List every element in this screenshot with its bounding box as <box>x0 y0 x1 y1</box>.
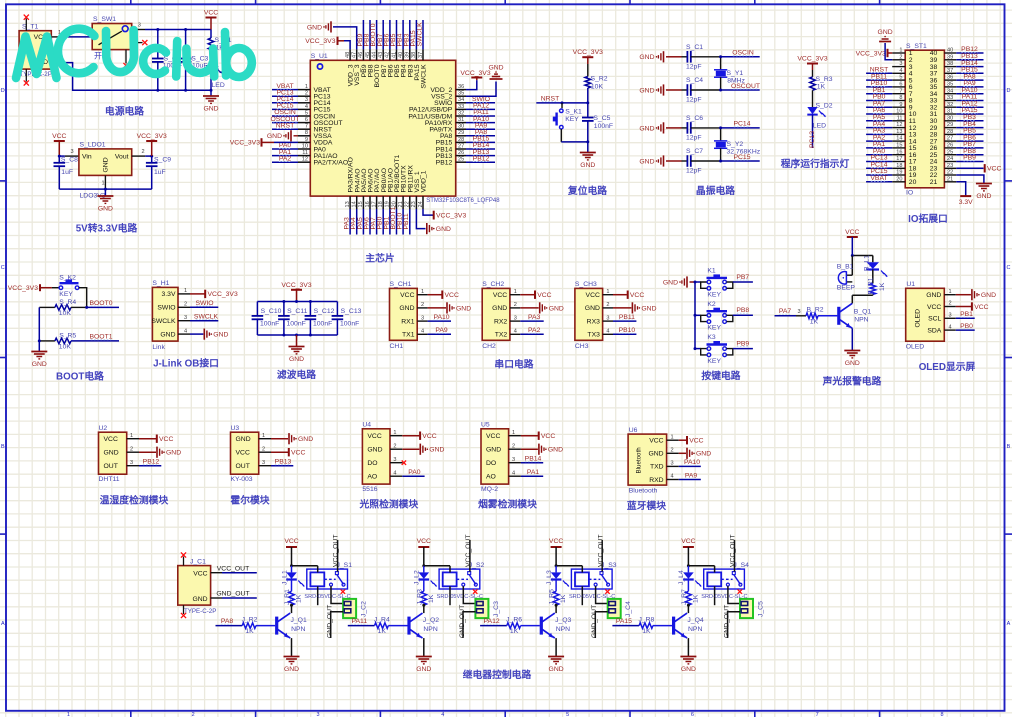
header S_H1 body <box>152 287 178 341</box>
header pin 14 <box>892 140 905 142</box>
svg-text:TXD: TXD <box>650 464 664 471</box>
module U3 body <box>231 432 259 474</box>
header S_CH2 body <box>482 288 510 340</box>
header pin 34 <box>944 93 956 95</box>
S_CH1 pin4 wire PA9 <box>428 333 451 335</box>
connector J_C1 (TYPE-C-2P) body <box>178 566 211 606</box>
svg-text:3: 3 <box>512 457 515 463</box>
svg-text:S_C1: S_C1 <box>686 44 703 51</box>
wire PB9 <box>733 348 753 350</box>
svg-text:VCC: VCC <box>586 292 600 299</box>
svg-text:27: 27 <box>458 143 464 149</box>
svg-text:1: 1 <box>514 289 517 295</box>
svg-text:2: 2 <box>393 443 396 449</box>
svg-text:J_R8: J_R8 <box>638 617 654 624</box>
mcu pin 13 PA3/RX/AO <box>349 196 351 209</box>
svg-text:48: 48 <box>345 52 351 58</box>
resistor S_R3 <box>810 77 816 90</box>
svg-text:J_R3: J_R3 <box>416 589 423 605</box>
U2 pin2 to GND <box>139 451 156 453</box>
svg-text:S_C10: S_C10 <box>261 308 282 315</box>
header pin 28 <box>944 133 956 135</box>
svg-text:电源电路: 电源电路 <box>105 105 144 118</box>
svg-text:温湿度检测模块: 温湿度检测模块 <box>100 494 169 507</box>
svg-text:GND: GND <box>641 305 656 312</box>
svg-text:3: 3 <box>393 457 396 463</box>
svg-text:29: 29 <box>947 122 953 128</box>
header pin 15 <box>892 147 905 149</box>
emitter to GND (relay 2) <box>423 638 425 656</box>
svg-text:GND: GND <box>267 133 282 140</box>
svg-text:NPN: NPN <box>423 626 437 633</box>
svg-text:18: 18 <box>378 201 384 207</box>
svg-text:DHT11: DHT11 <box>99 476 120 483</box>
svg-text:7: 7 <box>816 712 819 717</box>
svg-text:声光报警电路: 声光报警电路 <box>822 375 882 388</box>
svg-text:GND: GND <box>639 87 654 94</box>
svg-text:26: 26 <box>458 150 464 156</box>
collector wire (relay 1) <box>291 605 293 613</box>
svg-text:1: 1 <box>262 433 265 439</box>
capacitor S_C11 <box>283 302 285 316</box>
wire relay1 top <box>292 565 318 567</box>
svg-text:S_C4: S_C4 <box>686 77 703 84</box>
svg-text:VCC_3V3: VCC_3V3 <box>208 291 238 298</box>
header pin 17 <box>892 161 905 163</box>
svg-text:VCC: VCC <box>927 304 941 311</box>
svg-text:14: 14 <box>352 201 358 207</box>
wire OSCIN <box>721 56 760 58</box>
U5 pin3 wire PB14 <box>521 462 543 464</box>
header pin23 VCC power <box>956 167 983 169</box>
svg-text:D: D <box>1 88 5 94</box>
svg-text:J_C4: J_C4 <box>625 601 632 617</box>
header pin 29 <box>944 127 956 129</box>
MCUclub watermark <box>16 29 252 78</box>
svg-text:PC13: PC13 <box>809 131 816 148</box>
collector wire (relay 4) <box>687 605 689 613</box>
svg-text:K3: K3 <box>707 334 716 341</box>
svg-text:1: 1 <box>102 181 105 187</box>
S_CH1 pin2 to GND <box>428 307 446 309</box>
svg-text:4: 4 <box>671 474 674 480</box>
svg-text:D: D <box>1007 88 1011 94</box>
svg-text:GND: GND <box>663 279 678 286</box>
svg-text:SWCLK: SWCLK <box>417 22 424 47</box>
svg-text:27: 27 <box>947 136 953 142</box>
svg-text:2: 2 <box>512 443 515 449</box>
U5 pin1 to VCC <box>521 435 538 437</box>
svg-text:SWCLK: SWCLK <box>151 318 176 325</box>
svg-text:C: C <box>1007 265 1011 271</box>
svg-text:GND: GND <box>166 450 181 457</box>
svg-text:GND: GND <box>981 292 996 299</box>
svg-text:S_C6: S_C6 <box>686 115 703 122</box>
svg-text:4: 4 <box>606 329 609 335</box>
resistor J_R5 <box>553 591 559 605</box>
svg-text:1K: 1K <box>560 594 567 603</box>
relay J_S1 outline <box>307 569 348 589</box>
svg-text:2: 2 <box>899 54 902 60</box>
svg-text:25: 25 <box>947 149 953 155</box>
svg-text:15: 15 <box>358 201 364 207</box>
header pin 2 <box>892 59 905 61</box>
mcu pin 23 VSS_1 <box>415 196 417 209</box>
svg-text:VCC_OUT: VCC_OUT <box>465 535 472 567</box>
jlink pin4 to GND <box>190 333 203 335</box>
relay J_S3 coil <box>575 572 589 586</box>
svg-text:VCC_3V3: VCC_3V3 <box>137 133 167 140</box>
svg-text:GND: GND <box>32 361 47 368</box>
capacitor S_C3 <box>185 30 187 59</box>
U2 pin1 to VCC <box>139 438 156 440</box>
svg-text:2: 2 <box>671 448 674 454</box>
relay J_S4 contacts <box>721 578 732 580</box>
mcu pin 16 PA6/AO <box>369 196 371 209</box>
wire R2 to NRST node <box>587 88 589 103</box>
LED S_D1 <box>206 66 216 73</box>
svg-text:29: 29 <box>458 130 464 136</box>
svg-text:GND: GND <box>486 447 501 454</box>
svg-text:2: 2 <box>130 446 133 452</box>
wire C8 to LDO pin3 <box>59 155 65 157</box>
U4 pin2 to GND <box>402 448 419 450</box>
svg-text:VCC: VCC <box>845 229 859 236</box>
svg-text:按键电路: 按键电路 <box>701 369 740 382</box>
collector wire (relay 3) <box>555 605 557 613</box>
svg-text:VCC: VCC <box>159 436 173 443</box>
mcu pin 44 BOOT0 <box>376 49 378 60</box>
svg-text:28: 28 <box>458 137 464 143</box>
filter bottom rail <box>257 334 337 336</box>
svg-text:NPN: NPN <box>688 626 702 633</box>
header pin1 VCC_3V3 power <box>887 49 889 57</box>
svg-text:U5: U5 <box>481 422 490 429</box>
relay J_S3 outline <box>571 569 612 589</box>
svg-text:14: 14 <box>896 136 902 142</box>
bottom wire LDO <box>59 188 151 190</box>
svg-text:GND: GND <box>696 451 711 458</box>
capacitor S_C5 <box>587 103 589 118</box>
wire GND_OUT (relay 4) <box>728 612 740 638</box>
bluetooth pin4 wire PA9 <box>679 479 701 481</box>
svg-text:S_K2: S_K2 <box>59 274 76 281</box>
svg-text:J_Q2: J_Q2 <box>423 617 439 624</box>
header pin 1 <box>892 52 905 54</box>
mcu U1 body <box>310 60 455 196</box>
svg-text:6: 6 <box>305 117 308 123</box>
svg-text:A: A <box>1007 621 1011 627</box>
U4 pin1 to VCC <box>402 435 419 437</box>
wire base PA11 (relay 2) <box>348 625 375 627</box>
svg-text:VCC: VCC <box>987 166 1001 173</box>
wire GND_OUT from J_C1 <box>211 597 222 599</box>
svg-text:J_R7: J_R7 <box>681 589 688 605</box>
ground GND (S_C1 row) <box>663 51 665 62</box>
display U1 body <box>906 288 945 341</box>
key S_K1 <box>561 103 563 108</box>
svg-text:23: 23 <box>947 163 953 169</box>
svg-text:VCC: VCC <box>689 438 703 445</box>
mcu pin48 VDD_3 to VCC_3V3 <box>344 41 350 50</box>
svg-text:GND: GND <box>926 292 941 299</box>
ground GND (boot) <box>31 351 47 353</box>
svg-text:GND: GND <box>585 305 600 312</box>
S_CH2 pin1 to VCC <box>520 294 534 296</box>
svg-text:GND: GND <box>492 305 507 312</box>
power port VCC (LDO) <box>54 140 65 142</box>
oled pin1 to GND <box>956 294 971 296</box>
svg-text:12: 12 <box>896 122 902 128</box>
svg-text:VCC: VCC <box>104 436 118 443</box>
header pin 38 <box>944 66 956 68</box>
wire PC15 <box>721 160 760 162</box>
header S_CH1 body <box>390 288 418 340</box>
svg-text:S_D2: S_D2 <box>816 102 833 109</box>
svg-text:J_Q4: J_Q4 <box>687 617 703 624</box>
svg-text:U6: U6 <box>629 427 638 434</box>
svg-text:GND_OUT: GND_OUT <box>724 605 731 638</box>
transistor J_Q4 <box>672 617 675 635</box>
mcu pin 3 PC14 <box>298 102 310 104</box>
svg-text:S_C8: S_C8 <box>61 157 78 164</box>
svg-text:19: 19 <box>896 170 902 176</box>
svg-text:1K: 1K <box>510 628 519 635</box>
connector J_C5 (relay 4) <box>740 599 753 618</box>
resistor J_R4 <box>375 623 389 629</box>
svg-text:22: 22 <box>405 201 411 207</box>
wire BOOT0 <box>71 306 87 308</box>
mcu pin 42 PB6 <box>389 49 391 60</box>
svg-text:GND: GND <box>284 666 299 673</box>
svg-text:2: 2 <box>142 149 145 155</box>
svg-text:VCC: VCC <box>486 433 500 440</box>
LED B_L1 <box>872 256 874 263</box>
svg-text:K1: K1 <box>707 268 716 275</box>
U3 pin3 wire PB13 <box>271 465 293 467</box>
svg-text:GND: GND <box>639 125 654 132</box>
emitter to GND (alarm) <box>851 328 853 350</box>
svg-text:33: 33 <box>458 104 464 110</box>
svg-text:28: 28 <box>947 129 953 135</box>
svg-text:蓝牙模块: 蓝牙模块 <box>627 499 666 512</box>
svg-text:VCC_OUT: VCC_OUT <box>597 535 604 567</box>
svg-text:VCC: VCC <box>367 433 381 440</box>
svg-text:5: 5 <box>566 712 569 717</box>
oled pin3 wire PB1 <box>956 317 975 319</box>
svg-text:12pF: 12pF <box>686 63 702 70</box>
header pin 37 <box>944 72 956 74</box>
ground GND (S_C6 row) <box>663 122 665 133</box>
S_CH2 pin2 to GND <box>520 307 538 309</box>
svg-text:S_SW1: S_SW1 <box>93 16 116 23</box>
svg-text:GND: GND <box>103 157 110 172</box>
module U2 body <box>99 432 127 474</box>
mcu pin36 VDD_2 to VCC_3V3 <box>466 80 477 90</box>
svg-text:8: 8 <box>899 95 902 101</box>
svg-text:LED: LED <box>813 122 826 129</box>
U5 pin2 to GND <box>521 448 538 450</box>
svg-text:5V转3.3V电路: 5V转3.3V电路 <box>76 222 138 235</box>
svg-text:VCC: VCC <box>422 433 436 440</box>
S_CH2 pin4 wire PA2 <box>520 333 543 335</box>
wire to R3 <box>812 70 814 77</box>
mcu pin 29 PA8 <box>456 135 466 137</box>
svg-text:S_R3: S_R3 <box>816 76 833 83</box>
svg-text:GND: GND <box>436 226 451 233</box>
header pin 3 <box>892 66 905 68</box>
LED J_L3 <box>555 566 557 573</box>
svg-text:NPN: NPN <box>556 626 570 633</box>
header pin 24 <box>944 161 956 163</box>
wire VCC_OUT (relay 1) <box>337 540 339 572</box>
U3 pin2 to VCC <box>271 451 288 453</box>
relay J_S2 outline <box>439 569 480 589</box>
svg-text:GND: GND <box>416 666 431 673</box>
svg-text:SWCLK: SWCLK <box>421 64 428 89</box>
svg-text:1: 1 <box>671 434 674 440</box>
power port VCC_3V3 (boot) <box>39 284 41 291</box>
svg-text:GND: GND <box>648 451 663 458</box>
svg-text:32: 32 <box>947 102 953 108</box>
S_CH1 pin1 to VCC <box>428 294 442 296</box>
J_C1 NC stub top <box>183 557 185 566</box>
wire GND_OUT (relay 2) <box>463 612 475 638</box>
svg-text:12pF: 12pF <box>686 168 702 175</box>
svg-text:3: 3 <box>671 461 674 467</box>
resistor S_R5 <box>39 340 55 342</box>
bluetooth pin3 wire PA10 <box>679 465 701 467</box>
svg-text:串口电路: 串口电路 <box>494 358 533 371</box>
mcu pin 15 PA5/AO <box>362 196 364 209</box>
svg-text:24: 24 <box>418 201 424 207</box>
header pin 40 <box>944 52 956 54</box>
svg-text:S_C11: S_C11 <box>287 308 307 315</box>
svg-text:13: 13 <box>345 201 351 207</box>
ground GND (reset) <box>580 152 596 154</box>
svg-text:7: 7 <box>899 88 902 94</box>
svg-text:U1: U1 <box>906 281 915 288</box>
ground GND (LDO) <box>104 189 106 196</box>
svg-text:S_CH3: S_CH3 <box>575 281 597 288</box>
capacitor S_C6 <box>682 127 688 129</box>
svg-text:VCC_3V3: VCC_3V3 <box>573 49 603 56</box>
svg-text:J_L4: J_L4 <box>678 570 685 585</box>
mcu pin 11 PA1/AO <box>298 155 310 157</box>
U2 pin3 wire PB12 <box>139 465 161 467</box>
capacitor S_C2 <box>157 30 159 59</box>
svg-text:36: 36 <box>458 84 464 90</box>
svg-text:VCC: VCC <box>400 292 414 299</box>
svg-text:3.3V: 3.3V <box>959 199 973 206</box>
capacitor S_C8 <box>58 156 60 163</box>
header pin 31 <box>944 113 956 115</box>
svg-text:35: 35 <box>458 91 464 97</box>
svg-text:S_C5: S_C5 <box>593 115 610 122</box>
svg-text:25: 25 <box>458 157 464 163</box>
svg-text:J_L3: J_L3 <box>546 570 553 585</box>
svg-text:DO: DO <box>486 460 496 467</box>
svg-text:S_Y1: S_Y1 <box>727 70 744 77</box>
wire NO contact to connector (relay 1) <box>331 586 343 603</box>
svg-text:KEY: KEY <box>707 325 721 332</box>
crystal S_Y2 <box>720 128 722 141</box>
svg-text:GND: GND <box>681 666 696 673</box>
svg-text:VCC: VCC <box>649 438 663 445</box>
wire BOOT1 <box>71 340 119 342</box>
alarm bottom branch <box>872 293 874 296</box>
svg-text:40: 40 <box>398 52 404 58</box>
svg-text:VCC_3V3: VCC_3V3 <box>797 56 827 63</box>
collector wire (relay 2) <box>423 605 425 613</box>
S_CH3 pin1 to VCC <box>613 294 627 296</box>
svg-text:VCC: VCC <box>284 538 298 545</box>
mcu pin 25 PB12 <box>456 161 466 163</box>
svg-text:VCC_OUT: VCC_OUT <box>217 565 249 572</box>
svg-text:17: 17 <box>371 201 377 207</box>
svg-text:5: 5 <box>899 75 902 81</box>
svg-text:2: 2 <box>606 302 609 308</box>
svg-text:30: 30 <box>947 115 953 121</box>
svg-text:S_C13: S_C13 <box>341 308 362 315</box>
svg-text:VCC: VCC <box>417 538 431 545</box>
header pin 21 <box>944 181 956 183</box>
mcu pin 34 SWIO <box>456 102 466 104</box>
svg-text:1: 1 <box>606 289 609 295</box>
svg-text:J_R5: J_R5 <box>549 589 556 605</box>
svg-text:VCC: VCC <box>630 292 644 299</box>
svg-text:21: 21 <box>930 179 938 186</box>
wire base PA12 (relay 3) <box>480 625 507 627</box>
svg-text:18: 18 <box>896 163 902 169</box>
header pin 35 <box>944 86 956 88</box>
svg-text:主芯片: 主芯片 <box>365 252 395 265</box>
header pin 6 <box>892 86 905 88</box>
svg-text:S_CH1: S_CH1 <box>390 281 412 288</box>
mcu pin 31 PA10/RX <box>456 122 466 124</box>
svg-text:DO: DO <box>367 460 377 467</box>
mcu pin 2 PC13 <box>298 95 310 97</box>
svg-text:GND: GND <box>289 356 304 363</box>
svg-text:21: 21 <box>398 201 404 207</box>
svg-text:S_CH2: S_CH2 <box>482 281 504 288</box>
LED J_L4 <box>687 566 689 573</box>
emitter to GND (relay 3) <box>555 638 557 656</box>
svg-text:7: 7 <box>305 124 308 130</box>
svg-text:GND: GND <box>192 596 207 603</box>
svg-text:VCC: VCC <box>445 292 459 299</box>
header pin 16 <box>892 154 905 156</box>
svg-text:23: 23 <box>411 201 417 207</box>
capacitor S_C1 <box>682 56 688 58</box>
svg-text:S_T1: S_T1 <box>22 24 38 31</box>
LDO GND pin1 <box>104 175 106 189</box>
svg-text:40: 40 <box>947 48 953 54</box>
header pin 7 <box>892 93 905 95</box>
mcu pin 24 VDD_1 <box>422 196 424 209</box>
resistor S_R2 <box>585 77 591 89</box>
svg-text:2: 2 <box>305 91 308 97</box>
svg-text:GND: GND <box>548 447 563 454</box>
bluetooth pin2 to GND <box>679 452 686 454</box>
svg-text:1K: 1K <box>428 594 435 603</box>
svg-text:37: 37 <box>947 68 953 74</box>
relay J_S2 contacts <box>457 578 468 580</box>
svg-text:9: 9 <box>305 137 308 143</box>
emitter to GND (relay 1) <box>291 638 293 656</box>
mcu pin 43 PB7 <box>382 49 384 60</box>
jlink pin3 wire SWCLK <box>190 320 218 322</box>
